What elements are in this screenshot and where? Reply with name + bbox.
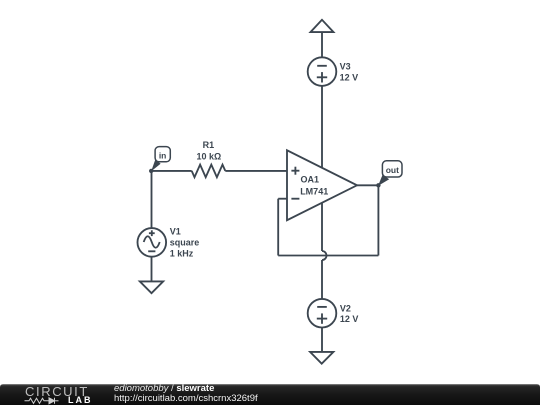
wire hop over feedback — [322, 251, 327, 260]
voltage source V2 — [308, 299, 337, 328]
wire hop to V2 — [321, 260, 323, 299]
svg-text:12 V: 12 V — [340, 73, 359, 83]
svg-text:10 kΩ: 10 kΩ — [196, 151, 221, 161]
wire feedback bottom horizontal — [278, 255, 378, 257]
ground G2 — [310, 352, 333, 364]
wire VCC arrow to V3 — [321, 32, 323, 57]
wire resistor R1 to op-amp + input — [225, 170, 287, 172]
ground G1 — [140, 281, 163, 293]
junction node out dot — [376, 183, 380, 187]
svg-text:R1: R1 — [203, 140, 215, 150]
footer logo circuit glyph resistor and diode — [25, 398, 59, 404]
op-amp U1 OA1 — [287, 150, 357, 220]
svg-text:LAB: LAB — [68, 395, 93, 405]
wire feedback to op-amp inverting input — [278, 198, 287, 200]
wire V2 to ground — [321, 328, 323, 353]
wire op-amp output to junction out — [357, 184, 378, 186]
wire feedback left vertical up — [277, 199, 279, 256]
voltage source V1 — [138, 228, 167, 257]
wire op-amp bottom power pin to hop — [321, 203, 323, 251]
voltage source V3 — [308, 57, 337, 86]
svg-text:http://circuitlab.com/cshcrnx3: http://circuitlab.com/cshcrnx326t9f — [114, 393, 258, 404]
junction node in dot — [149, 169, 153, 173]
svg-text:V1: V1 — [170, 227, 181, 237]
node flag in tail — [151, 159, 160, 171]
svg-text:1 kHz: 1 kHz — [170, 249, 194, 259]
node flag out box — [382, 161, 402, 177]
svg-text:V3: V3 — [340, 61, 351, 71]
footer bar — [0, 384, 540, 405]
wire V3 to op-amp top power pin — [321, 86, 323, 167]
svg-text:12 V: 12 V — [340, 314, 359, 324]
node flag in box — [155, 147, 170, 162]
wire node in down to V1 — [151, 171, 153, 228]
wire V1 to ground — [151, 257, 153, 282]
svg-text:LM741: LM741 — [300, 186, 328, 196]
wire feedback junction down — [377, 185, 379, 255]
svg-text:square: square — [170, 238, 200, 248]
svg-text:V2: V2 — [340, 303, 351, 313]
node flag out tail — [378, 175, 389, 186]
wire node in to resistor R1 — [151, 170, 191, 172]
svg-text:in: in — [159, 150, 167, 160]
power flag VCC arrow — [311, 20, 334, 32]
resistor R1 — [192, 165, 226, 178]
svg-text:out: out — [386, 165, 399, 175]
svg-text:OA1: OA1 — [301, 175, 320, 185]
